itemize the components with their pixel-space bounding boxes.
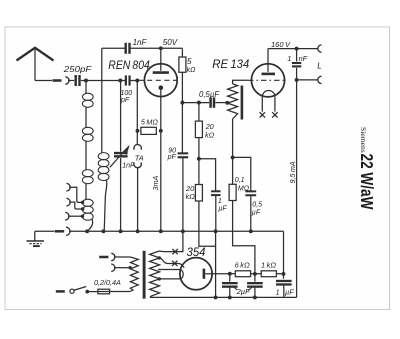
- svg-text:kΩ: kΩ: [205, 131, 215, 140]
- capacitor 100pF: [125, 75, 127, 85]
- wire node to 1µF: [199, 159, 216, 191]
- node 20k top: [197, 101, 201, 105]
- svg-text:1: 1: [276, 288, 280, 297]
- core bar transformer: [143, 251, 146, 299]
- svg-text:0,1: 0,1: [235, 177, 245, 184]
- inductor reaction coil: [98, 153, 109, 160]
- rail corner right: [283, 231, 285, 274]
- capacitor 1µF right: [283, 274, 285, 279]
- x heater RE134 b: [272, 112, 277, 117]
- jack tap2: [66, 198, 70, 206]
- svg-text:5: 5: [187, 57, 192, 66]
- node 0.1M top: [231, 155, 235, 159]
- inductor transformer primary: [130, 257, 138, 292]
- svg-text:6 kΩ: 6 kΩ: [235, 260, 250, 269]
- wire 0.1M: [232, 157, 234, 184]
- capacitor 1µF middle: [211, 190, 221, 192]
- inductor antenna coil section4: [82, 199, 93, 206]
- wire mains2: [114, 267, 129, 269]
- core bar choke: [241, 86, 244, 120]
- svg-text:Siemens: Siemens: [359, 127, 368, 153]
- resistor 20kΩ upper: [195, 121, 202, 138]
- svg-text:kΩ: kΩ: [186, 192, 196, 201]
- wire coil bottom: [87, 219, 92, 231]
- node trimmer tap: [118, 79, 122, 83]
- jack TA lower: [134, 162, 142, 167]
- inductor antenna coil section3: [82, 170, 93, 177]
- fuse 0,2/0,4A: [98, 289, 110, 294]
- jack TA upper: [134, 144, 142, 149]
- tube 354: [180, 258, 212, 290]
- jack mains1: [111, 253, 115, 260]
- svg-text:1 kΩ: 1 kΩ: [261, 260, 276, 269]
- wire 9,5mA: [296, 80, 298, 298]
- svg-text:1: 1: [218, 198, 222, 205]
- svg-text:0,5: 0,5: [252, 202, 262, 209]
- svg-text:2µF: 2µF: [236, 287, 250, 296]
- resistor 20kΩ lower: [195, 185, 202, 202]
- inductor antenna coil section1: [82, 93, 93, 100]
- node screen wire left: [180, 101, 184, 105]
- wire 160V: [268, 48, 318, 50]
- wire mains1: [114, 256, 130, 258]
- wire coil top: [85, 81, 87, 94]
- bottom rail nodes: [214, 295, 218, 299]
- jack L upper: [318, 45, 322, 52]
- switch: [56, 290, 65, 293]
- node mid bottom: [253, 272, 257, 276]
- wire heater bottom 354: [159, 278, 180, 280]
- wire TA to rail: [137, 168, 139, 231]
- plug pin mains: [99, 256, 108, 259]
- svg-text:3mA: 3mA: [151, 176, 160, 191]
- antenna: [17, 48, 54, 61]
- wire below rail left: [160, 231, 183, 251]
- svg-text:354: 354: [187, 245, 206, 259]
- bottom rail: [150, 296, 297, 298]
- svg-text:pF: pF: [120, 97, 130, 104]
- svg-text:50V: 50V: [163, 38, 178, 47]
- node choke tap: [225, 101, 229, 105]
- wire cap to choke: [216, 102, 228, 104]
- inductor antenna coil section2: [82, 127, 93, 134]
- trimmer capacitor 1nF: [114, 152, 128, 154]
- svg-text:nF: nF: [299, 54, 308, 63]
- wire choke top to grid: [233, 80, 248, 84]
- wire heater top 354: [158, 269, 180, 271]
- wire heater link2: [159, 258, 184, 268]
- plug pin antenna: [53, 79, 62, 82]
- wire coil link1: [85, 107, 87, 128]
- node 5M right: [159, 129, 163, 133]
- wire cathode REN804: [160, 90, 162, 232]
- x heater link2: [172, 261, 177, 266]
- capacitor 0,5µF lower: [245, 190, 256, 192]
- wire reaction coil bottom: [104, 180, 107, 232]
- jack mains2: [111, 264, 115, 271]
- node 5M left: [136, 129, 140, 133]
- wire tap3: [68, 215, 83, 217]
- wire 0,5µF down: [250, 195, 252, 231]
- svg-text:1nF: 1nF: [133, 38, 148, 47]
- tap secondary 1: [158, 256, 161, 259]
- wire coil link2: [85, 141, 87, 170]
- wire trimmer lead: [120, 81, 122, 152]
- wire 20k1 bottom: [198, 138, 200, 159]
- jack tap3: [65, 212, 69, 220]
- wire tap2: [69, 202, 83, 209]
- node antenna coil top: [84, 79, 88, 83]
- node grid REN804: [135, 79, 139, 83]
- svg-text:µF: µF: [218, 206, 227, 213]
- svg-text:kΩ: kΩ: [187, 67, 197, 74]
- svg-text:L: L: [317, 62, 321, 71]
- svg-text:pF: pF: [167, 154, 177, 161]
- wire ground lead: [35, 230, 55, 232]
- svg-text:1nF: 1nF: [122, 162, 135, 169]
- jack tap1: [66, 183, 70, 191]
- wire 20k1 top: [198, 103, 200, 122]
- wire jack to C1: [68, 80, 74, 82]
- wire to 50V node: [130, 47, 161, 49]
- svg-text:0,2/0,4A: 0,2/0,4A: [94, 278, 121, 287]
- wire coil link3: [85, 183, 87, 199]
- node 2µF a: [228, 272, 232, 276]
- svg-text:1: 1: [287, 54, 291, 63]
- wire top left rail: [102, 47, 125, 49]
- wire down to 5k: [181, 48, 183, 57]
- inductor choke: [228, 84, 238, 119]
- wire 1µF down: [215, 195, 217, 231]
- svg-text:5 MΩ: 5 MΩ: [141, 118, 158, 127]
- tap secondary 2: [158, 277, 161, 280]
- tap dots antenna coil: [81, 201, 85, 205]
- svg-text:µF: µF: [252, 209, 261, 216]
- grid dashes REN804: [139, 79, 177, 81]
- svg-text:9,5 mA: 9,5 mA: [288, 161, 297, 183]
- jack antenna: [65, 77, 69, 84]
- node 50V: [159, 46, 163, 50]
- tube RE134: [251, 64, 284, 97]
- wire trimmer to rail: [120, 158, 122, 231]
- wire choke bottom: [232, 119, 234, 157]
- resistor 6kΩ: [235, 271, 250, 277]
- resistor 5kΩ: [179, 57, 186, 72]
- plug pin ground: [55, 230, 64, 233]
- jack ground: [66, 227, 70, 235]
- resistor 5MΩ: [141, 127, 156, 134]
- x heater link1: [172, 249, 177, 254]
- wire 90pF down: [182, 157, 184, 231]
- svg-text:TA: TA: [135, 154, 144, 163]
- capacitor 1nF top: [124, 43, 126, 54]
- wire 354 anode: [205, 273, 230, 275]
- x heater RE134 a: [260, 112, 265, 117]
- svg-text:22 W/aW: 22 W/aW: [357, 154, 377, 210]
- wire reaction coil lead: [101, 48, 103, 152]
- wire antenna to plug: [35, 80, 52, 82]
- node right bottom: [282, 272, 286, 276]
- wire tap1: [69, 187, 83, 202]
- wire screen: [182, 102, 209, 104]
- capacitor 2µF a: [229, 274, 231, 282]
- capacitor 1nF right: [296, 49, 298, 62]
- wire 1k lead: [276, 273, 283, 275]
- svg-text:REN 804: REN 804: [108, 58, 150, 72]
- capacitor 0,5µF upper: [209, 97, 212, 107]
- heater legs RE134: [261, 97, 263, 112]
- wire grid node down: [136, 81, 138, 145]
- wire C2 to grid node: [130, 80, 137, 82]
- ground symbol: [34, 231, 36, 240]
- wire 5k down: [181, 72, 183, 153]
- resistor 0,1MΩ: [229, 184, 236, 200]
- wire node to 0,5µF: [233, 157, 251, 191]
- svg-text:RE 134: RE 134: [212, 59, 249, 71]
- ground rail: [69, 230, 284, 232]
- wire switch to fuse: [87, 291, 98, 293]
- wire grid line: [81, 80, 125, 82]
- svg-text:µF: µF: [285, 288, 294, 297]
- svg-text:MΩ: MΩ: [238, 185, 250, 192]
- wire mid vertical: [215, 231, 217, 297]
- capacitor 90pF: [178, 152, 189, 154]
- wire 20k2: [198, 159, 200, 185]
- capacitor 250pF: [74, 75, 76, 86]
- resistor 1kΩ: [261, 271, 276, 277]
- svg-text:160 V: 160 V: [271, 40, 291, 49]
- svg-text:20: 20: [205, 122, 214, 131]
- grid dashes RE134: [248, 79, 284, 81]
- jack L lower: [318, 76, 322, 83]
- wire fuse to primary: [110, 291, 131, 293]
- node 158 left: [197, 157, 201, 161]
- wire 6k leads: [230, 273, 236, 275]
- wire L lower: [296, 68, 298, 80]
- svg-text:250pF: 250pF: [63, 64, 93, 74]
- capacitor 2µF b: [254, 274, 256, 282]
- inductor transformer secondary: [150, 251, 160, 298]
- wire 50V to R anode: [161, 47, 183, 49]
- svg-text:0,5µF: 0,5µF: [199, 90, 220, 99]
- node 160V: [295, 47, 299, 51]
- tube REN804: [144, 64, 177, 97]
- rail nodes: [85, 229, 89, 233]
